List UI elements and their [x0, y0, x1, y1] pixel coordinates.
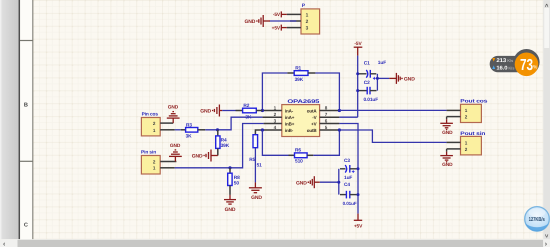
- svg-text:˄: ˄: [545, 4, 549, 10]
- svg-text:GND: GND: [442, 130, 453, 136]
- overlay network speed pill: [490, 49, 540, 76]
- svg-text:GND: GND: [244, 19, 255, 25]
- svg-text:-5V: -5V: [354, 41, 362, 47]
- node pin1 junction: [261, 109, 264, 112]
- sheet border inner line: [32, 0, 34, 239]
- svg-text:50: 50: [234, 181, 240, 187]
- svg-text:+V: +V: [311, 121, 317, 126]
- svg-text:K/s: K/s: [507, 58, 514, 63]
- zone divider B/C: [20, 160, 33, 162]
- svg-text:GND: GND: [168, 105, 179, 111]
- wire inA+ net: [205, 117, 262, 130]
- svg-text:R8: R8: [234, 175, 240, 181]
- svg-text:inB+: inB+: [285, 121, 295, 126]
- svg-text:1uF: 1uF: [344, 175, 352, 181]
- resistor R4: [216, 130, 230, 156]
- svg-text:C1: C1: [364, 61, 370, 67]
- node C3 right: [357, 167, 360, 170]
- pin 6 +V: [320, 123, 340, 125]
- ground GND below R4: [192, 150, 218, 162]
- pin 4 inB-: [262, 129, 281, 131]
- bottom scrollbar: [0, 239, 550, 247]
- svg-text:GND: GND: [192, 154, 203, 160]
- connector Pin cos: [141, 112, 160, 136]
- node C4 right: [357, 193, 360, 196]
- power port +5V at P pin3: [281, 25, 287, 31]
- svg-text:GND: GND: [251, 195, 262, 201]
- pin 1 of Pin cos: [160, 129, 175, 131]
- svg-text:GND: GND: [170, 143, 181, 149]
- pin 1 inA-: [262, 110, 281, 112]
- wire GND to R2: [222, 110, 235, 112]
- svg-text:inA-: inA-: [285, 108, 294, 113]
- ground GND above Pin sin pin2: [169, 143, 182, 162]
- pin 3 of P: [287, 27, 301, 29]
- svg-text:127KB/s: 127KB/s: [529, 216, 545, 223]
- svg-text:GND: GND: [404, 76, 415, 82]
- svg-text:3: 3: [306, 26, 309, 32]
- svg-text:GND: GND: [225, 207, 236, 213]
- capacitor C3: [340, 158, 357, 181]
- svg-text:R4: R4: [221, 138, 227, 144]
- wire -5V rail top: [357, 56, 359, 118]
- connector Pin sin: [141, 150, 160, 174]
- svg-text:+5V: +5V: [354, 223, 363, 229]
- power port +5V bottom: [354, 214, 363, 230]
- svg-text:Pout cos: Pout cos: [460, 99, 487, 105]
- pin 7 -V: [320, 116, 340, 118]
- svg-text:510: 510: [295, 159, 303, 165]
- pin 3 inB+: [264, 123, 282, 125]
- node R3R4 junction: [216, 128, 219, 131]
- pin 2 inA+: [262, 116, 281, 118]
- pin 1 of Pout sin: [447, 141, 461, 143]
- junction node C2 left: [356, 89, 359, 92]
- svg-text:16.0: 16.0: [496, 66, 507, 72]
- svg-text:-V: -V: [312, 115, 316, 120]
- wire pin6 to bottom rail: [339, 124, 358, 214]
- svg-text:3K: 3K: [186, 134, 193, 140]
- svg-text:inA+: inA+: [285, 115, 295, 120]
- resistor R8: [228, 168, 240, 195]
- svg-text:-5V: -5V: [273, 12, 281, 18]
- zone divider A/B: [20, 40, 33, 42]
- svg-text:Pin cos: Pin cos: [142, 112, 159, 118]
- svg-text:GND: GND: [200, 109, 211, 115]
- ground GND left of C3C4: [296, 176, 320, 188]
- svg-text:B: B: [24, 102, 28, 108]
- pin names U1: [285, 108, 318, 133]
- pin 2 of Pout cos: [447, 116, 461, 118]
- pin 1 of Pout cos: [447, 109, 461, 111]
- ground GND left of P: [244, 15, 270, 27]
- wire outA to Pout cos: [339, 109, 446, 111]
- wire GND to P pin2: [270, 20, 297, 22]
- ground GND right of C1: [389, 73, 415, 84]
- pin 5 outB: [320, 129, 340, 131]
- wire pin4 to R6: [262, 130, 288, 155]
- resistor R5: [249, 130, 262, 168]
- wire C3-C4 left vertical: [338, 169, 340, 195]
- pin 2 of Pin cos: [160, 122, 173, 124]
- ground GND below Pout cos: [440, 117, 453, 136]
- svg-text:73: 73: [520, 57, 533, 74]
- wire R6 to pin5: [313, 130, 339, 155]
- wire outB to Pout sin: [339, 130, 446, 142]
- ground GND below R8: [224, 195, 236, 213]
- svg-text:1: 1: [306, 12, 309, 18]
- pin numbers U1 left: [274, 105, 277, 129]
- capacitor C4: [340, 182, 357, 206]
- pin 1 of Pin sin: [160, 167, 175, 169]
- svg-text:R5: R5: [249, 157, 255, 163]
- node pin8 junction: [338, 109, 341, 112]
- pin 2 of Pout sin: [447, 148, 461, 150]
- svg-text:51: 51: [257, 162, 263, 168]
- svg-text:C: C: [24, 222, 28, 228]
- ground GND below R5: [249, 182, 262, 201]
- svg-text:1uF: 1uF: [378, 60, 386, 66]
- capacitor C1: [359, 60, 386, 80]
- svg-text:213: 213: [496, 58, 506, 64]
- node R8 junction: [228, 166, 231, 169]
- pin 2 of P: [290, 20, 301, 22]
- wire pin7 to top rail: [339, 116, 357, 118]
- svg-text:0.01uF: 0.01uF: [364, 97, 379, 103]
- wire to GND right of C1: [377, 77, 389, 79]
- pin 2 of Pin sin: [160, 161, 176, 163]
- svg-text:39K: 39K: [295, 77, 304, 83]
- resistor R6: [289, 147, 314, 164]
- ground GND above Pin cos pin2: [167, 105, 180, 124]
- ground GND below Pout sin: [440, 149, 453, 168]
- ground GND left of R2: [200, 105, 222, 117]
- wire R1 right leg: [315, 73, 339, 111]
- wire C1-C2 right vertical: [376, 74, 378, 91]
- wire R1 left leg: [262, 73, 287, 111]
- pin 1 of P: [287, 13, 301, 15]
- connector Pout cos: [460, 99, 487, 123]
- pin numbers P: [306, 12, 309, 31]
- left workspace panel: [0, 0, 19, 239]
- svg-text:C3: C3: [344, 158, 350, 164]
- svg-text:C4: C4: [344, 182, 350, 188]
- pin numbers U1 right: [325, 105, 328, 129]
- resistor R1: [287, 65, 315, 83]
- svg-text:outB: outB: [307, 128, 318, 133]
- resistor R2: [236, 103, 263, 120]
- overlay speed ball: [525, 207, 550, 232]
- wire R5 to GND: [254, 148, 256, 183]
- op-amp U1 OPA2695: [282, 99, 320, 137]
- svg-text:C2: C2: [364, 80, 370, 86]
- junction node C1C2-GND: [376, 77, 379, 80]
- node pin4 junction: [261, 128, 264, 131]
- connector P: [301, 3, 320, 34]
- connector Pout sin: [460, 131, 485, 155]
- svg-text:GND: GND: [442, 162, 453, 168]
- right scrollbar: [543, 0, 550, 240]
- svg-text:inB-: inB-: [285, 128, 294, 133]
- svg-text:outA: outA: [307, 108, 318, 113]
- pin 8 outA: [320, 110, 340, 112]
- node C3C4 gnd: [337, 181, 340, 184]
- svg-text:K/s: K/s: [508, 66, 515, 71]
- resistor R3: [181, 122, 206, 139]
- sheet border outer line: [18, 0, 20, 239]
- power port -5V at P pin1: [281, 11, 287, 17]
- wire Pin sin net to pin3: [175, 124, 264, 168]
- power port -5V top: [354, 41, 363, 56]
- svg-text:39K: 39K: [221, 143, 230, 149]
- wire GND to C3C4: [320, 181, 339, 183]
- capacitor C2: [359, 80, 378, 103]
- node pin5 junction: [338, 128, 341, 131]
- svg-text:+5V: +5V: [272, 25, 281, 31]
- svg-text:2: 2: [306, 19, 309, 25]
- sheet margin column: [20, 0, 33, 239]
- wire Pincos1 to R3: [175, 129, 181, 131]
- svg-text:0.01uF: 0.01uF: [343, 201, 357, 206]
- svg-text:Pin sin: Pin sin: [141, 150, 156, 156]
- svg-text:˅: ˅: [545, 234, 549, 240]
- junction node C1 left: [356, 72, 359, 75]
- svg-text:GND: GND: [296, 180, 307, 186]
